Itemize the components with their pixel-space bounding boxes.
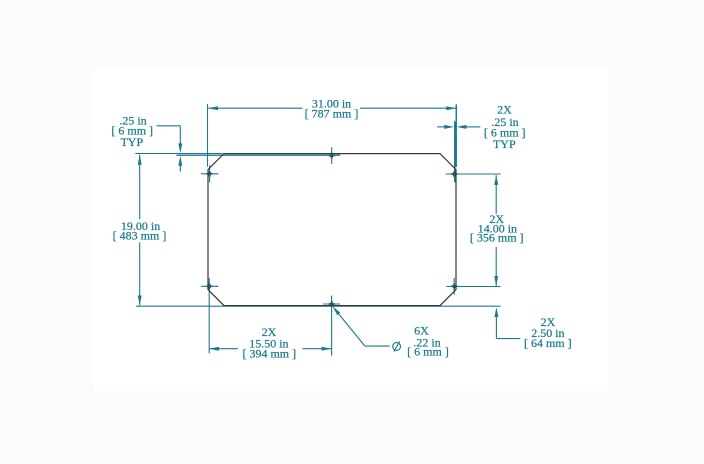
extension line: top edge ext (left of plate)	[135, 153, 222, 155]
plate outline (octagon with 2in chamfers)	[208, 154, 456, 306]
hole H1 center mark	[201, 165, 219, 182]
svg-text:TYP: TYP	[120, 135, 143, 149]
dimension 2X 2.50 in [64 mm] (bottom-right)	[494, 307, 571, 350]
hole H6 center mark	[451, 278, 457, 295]
extension line: 31.00 left ext	[207, 104, 209, 166]
diameter symbol	[393, 343, 401, 351]
hole H3 circle	[453, 173, 456, 176]
hole H4 circle	[208, 285, 211, 288]
hole H5 center mark	[323, 301, 340, 307]
extension line: 31.00 right ext (plate right edge)	[455, 104, 458, 167]
extension line: right hole column ext	[454, 167, 456, 182]
dimension 2X 15.50 in [394 mm] (bottom)	[209, 325, 331, 361]
svg-text:[ 483 mm ]: [ 483 mm ]	[113, 229, 167, 243]
hole H3 center mark	[446, 171, 463, 177]
hole H6 circle	[453, 285, 456, 288]
dimension 2X 14.00 in [356 mm] (right)	[470, 175, 524, 286]
extension line: bottom edge ext (long)	[136, 305, 501, 307]
svg-text:TYP: TYP	[493, 137, 516, 151]
dimension 2X .25 in [6 mm] TYP (top-right)	[437, 102, 525, 150]
extension line: 15.50 left ext (hole H4 column)	[208, 278, 210, 353]
extension line: hole H3 centerline right ext	[446, 173, 500, 175]
hole H1 circle	[208, 172, 211, 175]
svg-text:[ 64 mm ]: [ 64 mm ]	[524, 336, 572, 350]
dimension 19.00 in [483 mm] (left)	[113, 155, 167, 306]
extension line: hole H6 centerline right ext	[446, 286, 500, 288]
svg-text:[ 356 mm ]: [ 356 mm ]	[470, 230, 524, 244]
hole H2 circle	[330, 154, 333, 157]
dimension 31.00 in [787 mm]	[208, 97, 456, 121]
dimension .25 in [6 mm] TYP (top-left)	[111, 114, 182, 172]
extension line: hole H2 centerline ext	[176, 154, 340, 156]
hole H4 center mark	[201, 283, 219, 289]
svg-text:[ 394 mm ]: [ 394 mm ]	[242, 347, 296, 361]
drawing canvas	[94, 70, 609, 391]
svg-text:[ 6 mm ]: [ 6 mm ]	[407, 344, 449, 358]
svg-text:[ 787 mm ]: [ 787 mm ]	[305, 107, 359, 121]
hole H5 circle	[330, 303, 333, 306]
hole H2 center mark	[329, 147, 335, 164]
hole callout 6X dia .22 in [6 mm] with leader	[333, 306, 449, 358]
extension line: 15.50 right ext (hole H5 column)	[331, 296, 333, 356]
